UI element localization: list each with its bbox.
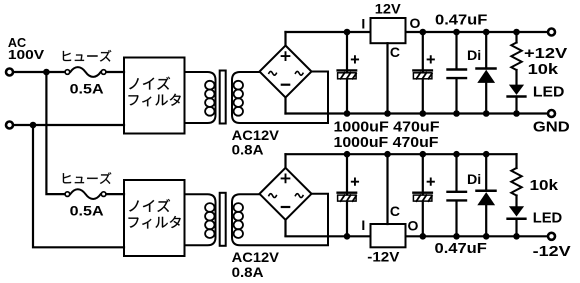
wire live drop to lower fuse	[46, 72, 64, 194]
svg-text:LED: LED	[533, 210, 563, 227]
svg-text:I: I	[361, 15, 365, 31]
fuse F2 0.5A	[65, 192, 106, 197]
transformer T2 core	[220, 193, 226, 246]
svg-text:AC12V: AC12V	[232, 249, 280, 265]
label fuse katakana bottom	[63, 172, 111, 184]
svg-text:O: O	[409, 15, 420, 31]
bridge rectifier D2	[260, 168, 312, 220]
svg-text:0.47uF: 0.47uF	[435, 240, 487, 257]
wire bridge D2 negative output	[284, 220, 286, 236]
LED1	[509, 85, 524, 95]
terminal GND output	[548, 110, 555, 117]
transformer T2 primary winding	[185, 194, 216, 245]
terminal AC input top	[6, 69, 13, 76]
label noise filter line2 top	[129, 94, 181, 106]
terminal +12V output	[548, 29, 555, 36]
svg-text:100V: 100V	[8, 47, 45, 62]
wire regulator U2 common pin	[386, 154, 388, 224]
fuse F1 0.5A	[65, 70, 106, 75]
wire neutral drop to lower filter	[33, 125, 124, 247]
label noise filter line2 bottom	[129, 216, 181, 228]
bridge D2 minus mark	[282, 206, 289, 208]
transformer T1 core	[220, 71, 226, 124]
node neutral junction	[30, 122, 37, 129]
transformer T1 primary winding	[185, 72, 216, 123]
svg-text:C: C	[390, 44, 400, 60]
bridge D1 minus mark	[282, 84, 289, 86]
wire top AC live	[13, 71, 64, 73]
wire bridge D1 positive output	[284, 32, 286, 46]
terminal AC input bottom	[6, 122, 13, 129]
bridge D2 ac mark right	[295, 194, 303, 198]
wire +12V rail (bridge to regulator input)	[286, 31, 371, 33]
junction dots	[344, 29, 351, 36]
label noise filter line1 top	[129, 77, 170, 90]
transformer T2 secondary winding	[232, 194, 328, 246]
svg-text:10k: 10k	[530, 177, 559, 194]
capacitor 470uF #1	[428, 56, 434, 62]
wire bridge D1 negative output	[284, 98, 286, 114]
bridge D1 plus mark	[282, 52, 290, 60]
wire -12V rail (bridge to regulator input)	[286, 235, 371, 237]
wire capacitor column 470uF	[422, 32, 424, 114]
label noise filter line1 bottom	[129, 199, 170, 212]
wire capacitor column 1000uF	[346, 154, 348, 236]
noise filter box 2	[124, 180, 185, 256]
capacitor 0.47uF #2	[455, 154, 457, 236]
wire GND rail bottom supply	[286, 153, 517, 155]
bridge D1 ac mark left	[269, 71, 277, 75]
wire fuse F2 to filter	[107, 193, 125, 195]
capacitor 1000uF #2	[352, 179, 358, 185]
svg-text:Di: Di	[467, 171, 481, 187]
regulator U1 12V	[371, 18, 406, 43]
svg-text:0.5A: 0.5A	[70, 203, 104, 219]
svg-text:0.47uF: 0.47uF	[435, 12, 487, 29]
svg-text:0.8A: 0.8A	[232, 264, 264, 280]
wire -12V rail (regulator output to terminal)	[406, 235, 547, 237]
diode Di #1	[485, 32, 487, 114]
noise filter box 1	[124, 58, 185, 134]
node live junction	[43, 69, 50, 76]
svg-text:+12V: +12V	[524, 45, 567, 62]
svg-text:Di: Di	[467, 47, 481, 63]
wire capacitor column 1000uF	[346, 32, 348, 114]
terminal -12V output	[548, 233, 555, 240]
capacitor 470uF #2	[428, 179, 434, 185]
capacitor 0.47uF #1	[455, 32, 457, 114]
transformer T1 secondary winding	[232, 72, 328, 124]
svg-text:O: O	[408, 217, 419, 233]
LED2	[509, 206, 524, 216]
svg-text:10k: 10k	[528, 61, 559, 78]
wire R1 to LED1	[515, 70, 517, 85]
svg-text:I: I	[361, 217, 365, 233]
svg-text:C: C	[390, 203, 400, 219]
svg-text:0.8A: 0.8A	[232, 141, 264, 157]
bridge D1 ac mark right	[295, 71, 303, 75]
wire +12V rail (regulator output to terminal)	[406, 31, 547, 33]
wire capacitor column 470uF	[422, 154, 424, 236]
wire bridge D2 positive output	[284, 154, 286, 168]
svg-text:-12V: -12V	[533, 243, 571, 260]
resistor R2 10k	[515, 154, 517, 168]
bridge D2 plus mark	[282, 175, 290, 183]
wire R2 to LED2	[515, 196, 517, 207]
bridge D2 ac mark left	[269, 194, 277, 198]
svg-text:LED: LED	[533, 83, 565, 100]
bridge rectifier D1	[260, 46, 312, 98]
svg-text:0.5A: 0.5A	[70, 80, 104, 96]
wire GND rail top supply	[286, 112, 547, 114]
wire fuse F1 to filter	[107, 71, 125, 73]
wire regulator U1 common pin	[386, 43, 388, 113]
label fuse katakana top	[63, 50, 111, 62]
resistor R1 10k	[515, 32, 517, 43]
capacitor 1000uF #1	[352, 56, 358, 62]
diode Di #2	[485, 154, 487, 236]
svg-text:1000uF 470uF: 1000uF 470uF	[334, 118, 440, 135]
svg-text:GND: GND	[533, 119, 570, 136]
svg-text:12V: 12V	[375, 1, 402, 17]
regulator U2 -12V	[371, 224, 406, 247]
svg-text:-12V: -12V	[367, 249, 400, 265]
wire neutral to top filter	[13, 124, 124, 126]
svg-text:1000uF 470uF: 1000uF 470uF	[334, 134, 439, 151]
